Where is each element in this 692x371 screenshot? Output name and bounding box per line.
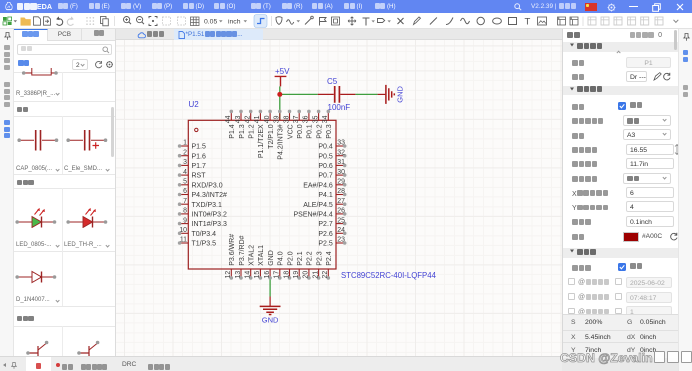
svg-text:25: 25	[337, 217, 345, 224]
canvas horizontal scrollbar thumb	[344, 357, 369, 360]
svg-text:P1.2: P1.2	[249, 124, 256, 139]
svg-text:P0.2: P0.2	[316, 124, 323, 139]
svg-text:3: 3	[183, 159, 187, 166]
svg-text:GND: GND	[396, 85, 405, 102]
svg-text:29: 29	[337, 179, 345, 186]
pin 16 (GND)	[264, 250, 275, 279]
svg-text:14: 14	[245, 271, 252, 279]
ground GND (bottom)	[260, 297, 281, 325]
value label 100nF	[328, 103, 351, 112]
wire: junction down to U2 VCC pin 38	[279, 94, 281, 120]
svg-text:P3.6/WR#: P3.6/WR#	[229, 234, 236, 266]
svg-text:9: 9	[183, 217, 187, 224]
svg-text:8: 8	[183, 208, 187, 215]
svg-text:P0.1: P0.1	[307, 124, 314, 139]
pin 12 (P3.6/WR#)	[225, 234, 236, 280]
svg-text:P2.5: P2.5	[318, 241, 333, 248]
pin 32 (P0.5)	[318, 149, 346, 160]
svg-text:41: 41	[254, 115, 261, 123]
svg-text:P4.2/INT3#: P4.2/INT3#	[278, 124, 285, 160]
svg-text:TXD/P3.1: TXD/P3.1	[192, 202, 222, 209]
svg-text:P1.7: P1.7	[192, 163, 207, 170]
svg-text:GND: GND	[262, 316, 279, 325]
svg-text:33: 33	[337, 140, 345, 147]
pin 31 (P0.6)	[318, 159, 346, 170]
svg-text:5: 5	[183, 179, 187, 186]
svg-text:32: 32	[337, 149, 345, 156]
svg-text:XTAL2: XTAL2	[249, 245, 256, 266]
svg-text:P2.0: P2.0	[287, 251, 294, 266]
svg-text:RST: RST	[192, 173, 207, 180]
svg-text:34: 34	[322, 115, 329, 123]
svg-text:INT0#/P3.2: INT0#/P3.2	[192, 212, 228, 219]
svg-text:1: 1	[183, 140, 187, 147]
svg-text:P2.1: P2.1	[297, 251, 304, 266]
junction node (+5V net)	[277, 92, 282, 97]
pin 1 (P1.5)	[178, 140, 206, 151]
power flag +5V	[275, 67, 291, 86]
library symbol: trimmer resistor R_3386P	[14, 68, 62, 82]
pin 41 (P1.1/T2EX)	[254, 110, 265, 159]
svg-text:P0.7: P0.7	[318, 173, 333, 180]
svg-text:EA#/P4.6: EA#/P4.6	[303, 182, 333, 189]
svg-text:VCC: VCC	[287, 124, 294, 139]
svg-text:GND: GND	[268, 250, 275, 266]
library symbol: green LED LED_0805	[14, 202, 58, 228]
pin 3 (P1.7)	[178, 159, 206, 170]
pin 33 (P0.4)	[318, 140, 346, 151]
svg-text:P3.7/RD#: P3.7/RD#	[239, 235, 246, 265]
svg-text:P1.1/T2EX: P1.1/T2EX	[258, 124, 265, 158]
pin 39 (P4.2/INT3#)	[274, 110, 285, 160]
svg-text:T2/P1.0: T2/P1.0	[268, 124, 275, 149]
pin 24 (P2.6)	[318, 227, 346, 238]
pin 42 (P1.2)	[245, 110, 256, 139]
svg-text:inch: inch	[228, 18, 241, 25]
svg-text:P0.4: P0.4	[318, 144, 333, 151]
svg-text:PSEN#/P4.4: PSEN#/P4.4	[293, 212, 332, 219]
svg-text:39: 39	[274, 115, 281, 123]
svg-text:T1/P3.5: T1/P3.5	[192, 241, 217, 248]
reference designator U2	[189, 100, 200, 109]
pin 22 (P2.4)	[322, 251, 333, 279]
wire: +5V vertical into junction	[279, 86, 281, 94]
svg-text:RXD/P3.0: RXD/P3.0	[192, 182, 223, 189]
pin 14 (XTAL2)	[245, 245, 256, 280]
pin 40 (T2/P1.0)	[264, 110, 275, 149]
pin 30 (P0.7)	[318, 169, 346, 180]
pin 28 (P4.1)	[318, 188, 346, 199]
svg-text:P1.4: P1.4	[229, 124, 236, 139]
svg-text:100nF: 100nF	[328, 103, 351, 112]
pin 10 (T0/P3.4)	[178, 227, 216, 238]
pin 25 (P2.7)	[318, 217, 346, 228]
svg-text:INT1#/P3.3: INT1#/P3.3	[192, 221, 228, 228]
pin 9 (INT1#/P3.3)	[178, 217, 227, 228]
pin 8 (INT0#/P3.2)	[178, 208, 227, 219]
pin 38 (VCC)	[283, 110, 294, 139]
svg-text:44: 44	[225, 115, 232, 123]
svg-text:P0.5: P0.5	[318, 153, 333, 160]
pin 15 (XTAL1)	[254, 245, 265, 280]
svg-text:T0/P3.4: T0/P3.4	[192, 231, 217, 238]
part number STC89C52RC-40I-LQFP44	[341, 271, 437, 280]
pin 18 (P2.0)	[283, 251, 294, 279]
svg-text:12: 12	[225, 271, 232, 279]
svg-text:37: 37	[293, 115, 300, 123]
pin 36 (P0.1)	[303, 110, 314, 139]
library symbol: NPN transistor	[25, 329, 51, 359]
svg-text:28: 28	[337, 188, 345, 195]
svg-text:7: 7	[183, 198, 187, 205]
ground GND (top right, rotated)	[378, 85, 405, 104]
svg-text:27: 27	[337, 198, 345, 205]
svg-text:P0.0: P0.0	[297, 124, 304, 139]
svg-text:+5V: +5V	[275, 67, 290, 76]
svg-text:2: 2	[183, 149, 187, 156]
svg-text:4: 4	[183, 169, 187, 176]
svg-text:13: 13	[235, 271, 242, 279]
svg-text:P2.7: P2.7	[318, 221, 333, 228]
library symbol: NPN transistor 2	[76, 329, 102, 359]
pin 17 (P4.0)	[274, 251, 285, 279]
svg-text:30: 30	[337, 169, 345, 176]
svg-text:31: 31	[337, 159, 345, 166]
svg-text:P0.3: P0.3	[326, 124, 333, 139]
svg-text:21: 21	[312, 271, 319, 279]
svg-text:17: 17	[274, 271, 281, 279]
capacitor C5	[318, 77, 356, 103]
wire: U2 GND pin 16 down to ground	[269, 278, 271, 297]
svg-text:P2.2: P2.2	[307, 251, 314, 266]
svg-text:U2: U2	[189, 100, 200, 109]
pin 5 (RXD/P3.0)	[178, 179, 223, 190]
svg-text:10: 10	[179, 227, 187, 234]
svg-text:P2.4: P2.4	[326, 251, 333, 266]
pin 43 (P1.3)	[235, 110, 246, 139]
svg-text:P1.6: P1.6	[192, 153, 207, 160]
svg-text:36: 36	[303, 115, 310, 123]
pin 26 (PSEN#/P4.4)	[293, 208, 346, 219]
pin 13 (P3.7/RD#)	[235, 235, 246, 279]
pin 2 (P1.6)	[178, 149, 206, 160]
svg-text:C5: C5	[327, 77, 338, 86]
svg-text:ALE/P4.5: ALE/P4.5	[303, 202, 333, 209]
svg-text:18: 18	[283, 271, 290, 279]
wire: C5 right lead to GND flag	[355, 93, 377, 95]
pin 35 (P0.2)	[312, 110, 323, 139]
pin 4 (RST)	[178, 169, 206, 180]
svg-text:26: 26	[337, 208, 345, 215]
svg-text:19: 19	[293, 271, 300, 279]
svg-text:43: 43	[235, 115, 242, 123]
svg-text:P1.5: P1.5	[192, 144, 207, 151]
svg-text:P4.1: P4.1	[318, 192, 333, 199]
pin 44 (P1.4)	[225, 110, 236, 139]
svg-text:P4.0: P4.0	[278, 251, 285, 266]
svg-text:0.05: 0.05	[204, 18, 217, 25]
pin 23 (P2.5)	[318, 237, 346, 248]
svg-text:38: 38	[283, 115, 290, 123]
svg-text:P2.3: P2.3	[316, 251, 323, 266]
svg-text:16: 16	[264, 271, 271, 279]
pin 11 (T1/P3.5)	[178, 237, 216, 248]
svg-text:35: 35	[312, 115, 319, 123]
pin 7 (TXD/P3.1)	[178, 198, 222, 209]
IC U2 STC89C52RC-40I-LQFP44 body	[188, 120, 336, 269]
svg-text:42: 42	[245, 115, 252, 123]
wire: junction right to C5 left lead	[280, 93, 318, 95]
svg-text:20: 20	[303, 271, 310, 279]
svg-text:XTAL1: XTAL1	[258, 245, 265, 266]
svg-text:6: 6	[183, 188, 187, 195]
library symbol: diode D_1N4007	[14, 266, 58, 290]
svg-text:STC89C52RC-40I-LQFP44: STC89C52RC-40I-LQFP44	[341, 271, 437, 280]
svg-text:P4.3/INT2#: P4.3/INT2#	[192, 192, 228, 199]
pin 19 (P2.1)	[293, 251, 304, 279]
pin 34 (P0.3)	[322, 110, 333, 139]
svg-text:15: 15	[254, 271, 261, 279]
svg-text:22: 22	[322, 271, 329, 279]
library symbol: polarized capacitor C_Ele_SMD	[63, 129, 111, 153]
svg-text:T: T	[525, 17, 531, 28]
svg-text:P0.6: P0.6	[318, 163, 333, 170]
pin 20 (P2.2)	[303, 251, 314, 279]
svg-text:40: 40	[264, 115, 271, 123]
svg-text:23: 23	[337, 237, 345, 244]
svg-text:P2.6: P2.6	[318, 231, 333, 238]
pin 6 (P4.3/INT2#)	[178, 188, 227, 199]
pin 21 (P2.3)	[312, 251, 323, 279]
pin 37 (P0.0)	[293, 110, 304, 139]
pin 27 (ALE/P4.5)	[303, 198, 346, 209]
svg-text:P1.3: P1.3	[239, 124, 246, 139]
pin 29 (EA#/P4.6)	[303, 179, 346, 190]
library symbol: red LED LED_TH-R	[65, 202, 109, 228]
svg-text:24: 24	[337, 227, 345, 234]
library symbol: capacitor CAP_0805	[14, 129, 62, 153]
svg-text:11: 11	[180, 237, 187, 244]
